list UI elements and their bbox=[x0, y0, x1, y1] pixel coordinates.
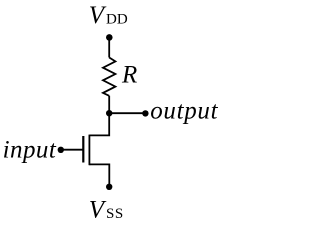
svg-text:V: V bbox=[89, 197, 107, 224]
svg-text:V: V bbox=[89, 2, 107, 29]
wire gate bbox=[61, 149, 84, 151]
svg-text:DD: DD bbox=[106, 12, 128, 28]
output terminal dot bbox=[142, 110, 148, 116]
wire VDD to resistor bbox=[108, 37, 110, 57]
svg-text:SS: SS bbox=[106, 206, 124, 222]
resistor R bbox=[103, 58, 115, 96]
wire source to VSS bbox=[89, 164, 109, 186]
net label VDD bbox=[89, 2, 128, 29]
svg-text:R: R bbox=[121, 62, 137, 89]
input terminal dot bbox=[58, 147, 64, 153]
junction node dot bbox=[106, 110, 112, 116]
wire node to output bbox=[109, 112, 145, 114]
node VSS dot bbox=[106, 184, 112, 190]
svg-text:input: input bbox=[3, 136, 57, 163]
transistor Q1 channel bar bbox=[88, 135, 90, 166]
transistor Q1 gate bar bbox=[82, 136, 84, 163]
net label VSS bbox=[89, 197, 124, 224]
node VDD dot bbox=[106, 34, 113, 41]
wire node to drain bbox=[89, 113, 109, 135]
wire resistor to output node bbox=[108, 96, 110, 113]
svg-text:output: output bbox=[150, 98, 218, 125]
